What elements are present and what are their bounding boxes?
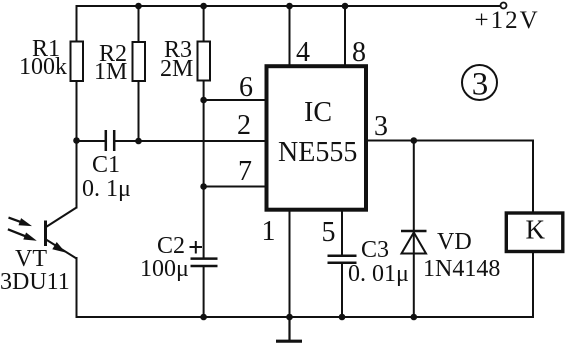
svg-text:VD: VD	[437, 229, 472, 255]
svg-text:K: K	[526, 215, 546, 245]
node top rail pin8	[342, 3, 349, 10]
wire R3 top	[203, 6, 205, 42]
+12V terminal circle	[501, 3, 507, 9]
wire left vertical upper (R1 branch)	[76, 6, 78, 42]
wire bottom rail	[77, 316, 534, 318]
svg-text:5: 5	[322, 217, 336, 248]
node top rail pin4	[286, 3, 293, 10]
svg-text:100μ: 100μ	[140, 256, 189, 282]
svg-text:3: 3	[374, 111, 388, 142]
light arrow 2	[8, 229, 37, 241]
wire R1 bottom to collector	[76, 81, 78, 208]
svg-text:3: 3	[472, 67, 489, 103]
ground	[276, 317, 302, 341]
resistor R2	[133, 42, 146, 81]
capacitor C2	[191, 259, 218, 266]
svg-text:C3: C3	[361, 237, 389, 263]
wire top rail	[77, 5, 501, 7]
wire pin3	[366, 140, 533, 142]
C2 plus sign	[190, 241, 203, 254]
wire pin6	[204, 99, 266, 101]
resistor R1	[71, 42, 84, 82]
node bottom rail diode	[411, 314, 418, 321]
svg-text:8: 8	[352, 37, 366, 68]
relay K	[506, 213, 563, 252]
emitter arrowhead	[52, 242, 65, 253]
wire through diode	[413, 231, 415, 254]
node pin6 R3	[200, 97, 207, 104]
svg-text:2: 2	[237, 110, 251, 141]
capacitor C3	[328, 256, 357, 263]
svg-text:2M: 2M	[160, 56, 193, 82]
svg-text:4: 4	[296, 37, 310, 68]
node top rail R3	[200, 3, 207, 10]
node bottom rail C3	[339, 314, 346, 321]
collector diagonal	[46, 208, 77, 228]
op-amp timer IC NE555	[267, 66, 367, 210]
svg-text:0. 1μ: 0. 1μ	[82, 176, 131, 202]
svg-text:+12V: +12V	[475, 7, 540, 34]
wire pin5 upper	[341, 211, 343, 255]
resistor R3	[198, 42, 211, 81]
wire pin4	[289, 6, 291, 66]
svg-text:7: 7	[238, 156, 252, 187]
svg-text:3DU11: 3DU11	[0, 269, 70, 295]
wire pin8	[344, 6, 346, 66]
node pin3 diode	[411, 137, 418, 144]
capacitor C1	[106, 130, 114, 151]
svg-text:1N4148: 1N4148	[423, 256, 500, 282]
wire emitter to bottom rail	[76, 258, 78, 317]
node C1 right	[135, 138, 142, 145]
wire pin2 left of C1	[77, 140, 106, 142]
node pin7 R3	[200, 183, 207, 190]
svg-text:1: 1	[262, 216, 276, 247]
wire diode lower	[413, 254, 415, 318]
wire C2 to bottom rail	[203, 267, 205, 317]
circled 3 figure number	[462, 65, 497, 103]
svg-text:1M: 1M	[94, 59, 127, 85]
base bar	[44, 221, 47, 247]
wire pin1	[289, 211, 291, 317]
node bottom rail ground	[286, 314, 293, 321]
wire pin7	[204, 186, 266, 188]
svg-text:0. 01μ: 0. 01μ	[348, 261, 409, 287]
diode VD	[401, 231, 427, 254]
node bottom rail C2	[200, 314, 207, 321]
wire pin5 lower	[341, 264, 343, 318]
svg-text:6: 6	[239, 72, 253, 103]
node top rail R2	[135, 3, 142, 10]
svg-text:100k: 100k	[19, 54, 67, 80]
wire R3 bottom to C2	[203, 81, 205, 258]
phototransistor VT	[46, 208, 77, 259]
svg-text:IC: IC	[304, 97, 332, 128]
wire relay lower	[532, 253, 534, 318]
wire R2 top	[138, 6, 140, 42]
wire relay upper	[532, 141, 534, 213]
wire pin2 right of C1	[115, 140, 266, 142]
svg-text:C1: C1	[92, 152, 120, 178]
wire diode upper	[413, 141, 415, 232]
light arrow 1	[9, 218, 33, 227]
svg-text:NE555: NE555	[278, 137, 357, 168]
emitter diagonal	[46, 240, 77, 259]
wire R2 bottom	[138, 81, 140, 142]
node C1 left	[73, 137, 80, 144]
